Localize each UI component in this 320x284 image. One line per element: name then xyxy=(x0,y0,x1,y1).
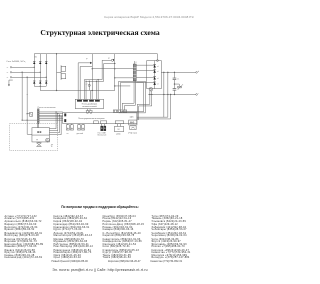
X1 output wire 4 xyxy=(136,82,154,84)
peripheral 1 xyxy=(66,124,73,135)
svg-text:С1: С1 xyxy=(177,79,179,81)
board top connector 3 xyxy=(123,110,127,113)
wire tab4 drops xyxy=(96,79,99,99)
sensor wire W2 horizontal xyxy=(80,65,92,67)
diode VD1 xyxy=(33,61,35,64)
cap midpoint tap resistor R1 xyxy=(174,84,184,89)
svg-text:−: − xyxy=(198,92,200,95)
harness wire 2 xyxy=(39,113,63,115)
balance wire 2 xyxy=(137,94,171,119)
svg-text:ЗО: ЗО xyxy=(117,129,120,131)
harness wire 4 xyxy=(39,116,63,118)
harness wire 1 xyxy=(39,111,63,113)
driver board xyxy=(75,99,103,108)
matching connector strip xyxy=(37,109,39,123)
diode VD6 xyxy=(45,81,47,84)
board pin block 1 xyxy=(64,113,66,116)
connector X1 xyxy=(133,64,136,81)
svg-text:Сеть 3х380В, 50Гц: Сеть 3х380В, 50Гц xyxy=(6,61,26,63)
wire W4 xyxy=(86,63,115,81)
node rail a xyxy=(149,94,150,95)
phase B wire xyxy=(12,71,41,73)
inverter top terminal xyxy=(157,60,159,62)
peripheral 2 xyxy=(77,124,85,135)
sensor wire W2 vertical xyxy=(79,66,81,99)
wire V1 to connector xyxy=(92,68,133,70)
svg-text:vd: vd xyxy=(157,71,159,73)
diode VD7 xyxy=(153,64,156,67)
driver text xyxy=(82,103,97,108)
svg-text:~: ~ xyxy=(6,66,8,70)
inverter internal rail xyxy=(154,61,156,89)
node rail b xyxy=(151,94,152,95)
X1 output wire 2 xyxy=(136,69,154,71)
harness wire 3 xyxy=(39,114,63,116)
board top connector 2 xyxy=(119,110,123,113)
bridge column 2 xyxy=(39,54,41,87)
svg-text:vd: vd xyxy=(157,78,159,80)
motor shaft circle xyxy=(46,138,50,142)
node tap B xyxy=(22,72,23,73)
node bw1 rail xyxy=(167,94,168,95)
svg-text:+: + xyxy=(198,70,200,73)
driver tab 2 xyxy=(83,100,88,102)
sensor circle tap on V2 xyxy=(111,59,113,61)
node V1 junction xyxy=(92,68,93,69)
svg-text:М: М xyxy=(51,146,53,148)
wire W3 xyxy=(84,60,111,79)
phase C wire xyxy=(12,76,47,78)
diode VD10 xyxy=(153,82,156,85)
svg-text:пч: пч xyxy=(67,133,69,135)
driver fan 2 xyxy=(89,111,92,114)
motor harness drop 1 xyxy=(49,112,56,129)
peripheral 5 thermistor block xyxy=(128,120,137,135)
gate pair 3 xyxy=(90,90,92,99)
node phase B junction xyxy=(40,72,41,73)
wire tap B down xyxy=(21,72,23,120)
phase C terminal xyxy=(6,76,11,80)
node cap bottom xyxy=(174,94,175,95)
wire V2 to connector lower xyxy=(115,77,134,79)
diode VD8 xyxy=(153,70,156,73)
node V2 j3 xyxy=(114,85,115,86)
svg-text:(-440): (-440) xyxy=(116,133,121,135)
node dc bottom xyxy=(56,90,57,91)
node V2 j2 xyxy=(114,77,115,78)
svg-text:Включение: Включение xyxy=(98,134,107,136)
diode labels xyxy=(157,66,159,85)
X1 output wire 1 xyxy=(136,64,154,66)
filter component C0 xyxy=(61,65,66,80)
wire V2 to module xyxy=(115,85,131,87)
footer mail line xyxy=(0,268,200,272)
motor harness drop 4 xyxy=(49,117,61,135)
footer sub line xyxy=(0,259,200,261)
node W4 xyxy=(114,63,115,64)
output minus rail xyxy=(148,93,196,95)
DC link vertical xyxy=(56,54,58,91)
svg-text:дв: дв xyxy=(36,139,38,141)
minus terminal xyxy=(196,92,200,95)
wire branch to DT box xyxy=(27,112,30,115)
driver fan 1 xyxy=(86,111,89,114)
peripheral 4 box xyxy=(114,124,123,136)
svg-text:ф: ф xyxy=(27,93,29,96)
node dc top xyxy=(56,53,57,54)
inverter bottom bushing xyxy=(149,87,153,91)
driver fan stubs xyxy=(87,109,90,111)
main vertical V1 xyxy=(91,54,93,91)
svg-text:R: R xyxy=(182,85,184,87)
diode VD2 xyxy=(39,61,41,64)
harness wire 5 xyxy=(39,118,63,120)
node bw1 top xyxy=(167,72,168,73)
svg-text:(ЦП): (ЦП) xyxy=(130,116,134,118)
svg-text:Плата согласования: Плата согласования xyxy=(38,107,56,109)
board bottom part box c xyxy=(115,121,124,124)
node V1 bottom xyxy=(92,90,93,91)
harness wire 6 xyxy=(39,119,63,121)
wire W3 drop xyxy=(83,80,85,100)
node bleeder bottom xyxy=(163,94,164,95)
negative rail elbow xyxy=(40,86,115,90)
document header line xyxy=(104,15,196,19)
rectifier bridge top bus xyxy=(34,53,157,55)
svg-text:дн: дн xyxy=(108,57,110,59)
node neg elbow xyxy=(40,86,41,87)
svg-text:vd: vd xyxy=(157,83,159,85)
power module box outer xyxy=(119,81,146,113)
filter component stub xyxy=(57,71,62,73)
svg-text:дт: дт xyxy=(86,58,88,60)
peripheral 3 dark xyxy=(98,124,107,137)
phase A wire xyxy=(12,66,35,68)
node tap C xyxy=(27,77,28,78)
capacitor C2 xyxy=(173,80,180,95)
driver tab 1 xyxy=(77,100,82,102)
wire W4 drop a xyxy=(85,81,88,99)
motor enclosure dashed xyxy=(9,124,57,151)
board pin block 2 xyxy=(64,119,66,122)
driver tab 3 xyxy=(89,100,94,102)
X1 output wire 3 xyxy=(136,76,154,78)
main vertical V2 xyxy=(114,54,116,91)
svg-text:дт: дт xyxy=(86,83,88,85)
svg-text:В1: В1 xyxy=(35,56,37,58)
sensor wire W1 horizontal with arrow xyxy=(78,62,92,64)
control board text xyxy=(78,116,134,119)
svg-text:дисплей: дисплей xyxy=(77,132,84,135)
plus terminal xyxy=(196,70,200,73)
diode VD5 xyxy=(39,81,41,84)
bridge bottom bus xyxy=(34,85,46,87)
node phase C junction xyxy=(46,77,47,78)
phase A terminal xyxy=(6,66,11,70)
X1 top stub xyxy=(134,61,136,64)
svg-text:Плата управления и контроля: Плата управления и контроля xyxy=(78,118,104,120)
wire branch to connector xyxy=(22,119,38,122)
board bottom part box b xyxy=(100,121,106,124)
sensor wire W1 vertical xyxy=(77,63,79,99)
phase B terminal xyxy=(6,71,11,75)
title xyxy=(0,28,200,37)
ground xyxy=(8,80,13,86)
thermistor wire b xyxy=(139,91,152,120)
sensor circle DT2 on drop xyxy=(88,81,90,91)
control board xyxy=(63,112,137,123)
svg-text:С2: С2 xyxy=(177,89,179,91)
inverter box xyxy=(147,61,162,89)
power module box inner xyxy=(120,83,144,112)
node bleeder top xyxy=(163,72,164,73)
motor harness drop 3 xyxy=(49,115,59,133)
node cap top xyxy=(174,72,175,73)
driver tab 4 xyxy=(95,100,100,102)
svg-text:vd: vd xyxy=(157,66,159,68)
diode VD4 xyxy=(33,81,35,84)
node V2 j1 xyxy=(114,68,115,69)
current sensor box DT xyxy=(30,112,33,116)
X1 bottom wire b xyxy=(125,81,136,111)
node phase A junction xyxy=(34,67,35,68)
balance wire 1 xyxy=(137,72,168,117)
motor label xyxy=(36,139,53,148)
X1 bottom wire a xyxy=(122,81,134,111)
capacitor C1 xyxy=(173,72,180,80)
wire bus to terminal xyxy=(156,54,158,60)
footer heading xyxy=(0,205,200,209)
board bottom part box a xyxy=(94,121,99,124)
bleeder vertical xyxy=(163,72,165,117)
bridge column 3 xyxy=(45,54,47,87)
svg-text:силовых ключей: силовых ключей xyxy=(82,105,96,108)
board top connector 1 xyxy=(113,110,118,113)
bridge column 1 xyxy=(33,54,35,87)
wire tap C down xyxy=(27,77,32,134)
svg-text:(РТД терм): (РТД терм) xyxy=(128,133,137,135)
footer city columns xyxy=(5,216,201,260)
diode VD3 xyxy=(45,61,47,64)
output plus rail xyxy=(161,71,196,73)
svg-text:~: ~ xyxy=(6,71,8,75)
thermistor wire a xyxy=(137,91,150,120)
motor fan xyxy=(37,142,42,147)
node bw2 rail xyxy=(170,94,171,95)
wires connector to motor xyxy=(38,123,39,127)
motor marks xyxy=(37,131,41,132)
motor harness drop 2 xyxy=(49,114,57,131)
motor divider xyxy=(32,134,50,136)
diode VD9 xyxy=(153,76,156,79)
svg-text:~: ~ xyxy=(6,76,8,80)
motor box xyxy=(32,128,50,142)
nodes harness xyxy=(56,112,62,118)
